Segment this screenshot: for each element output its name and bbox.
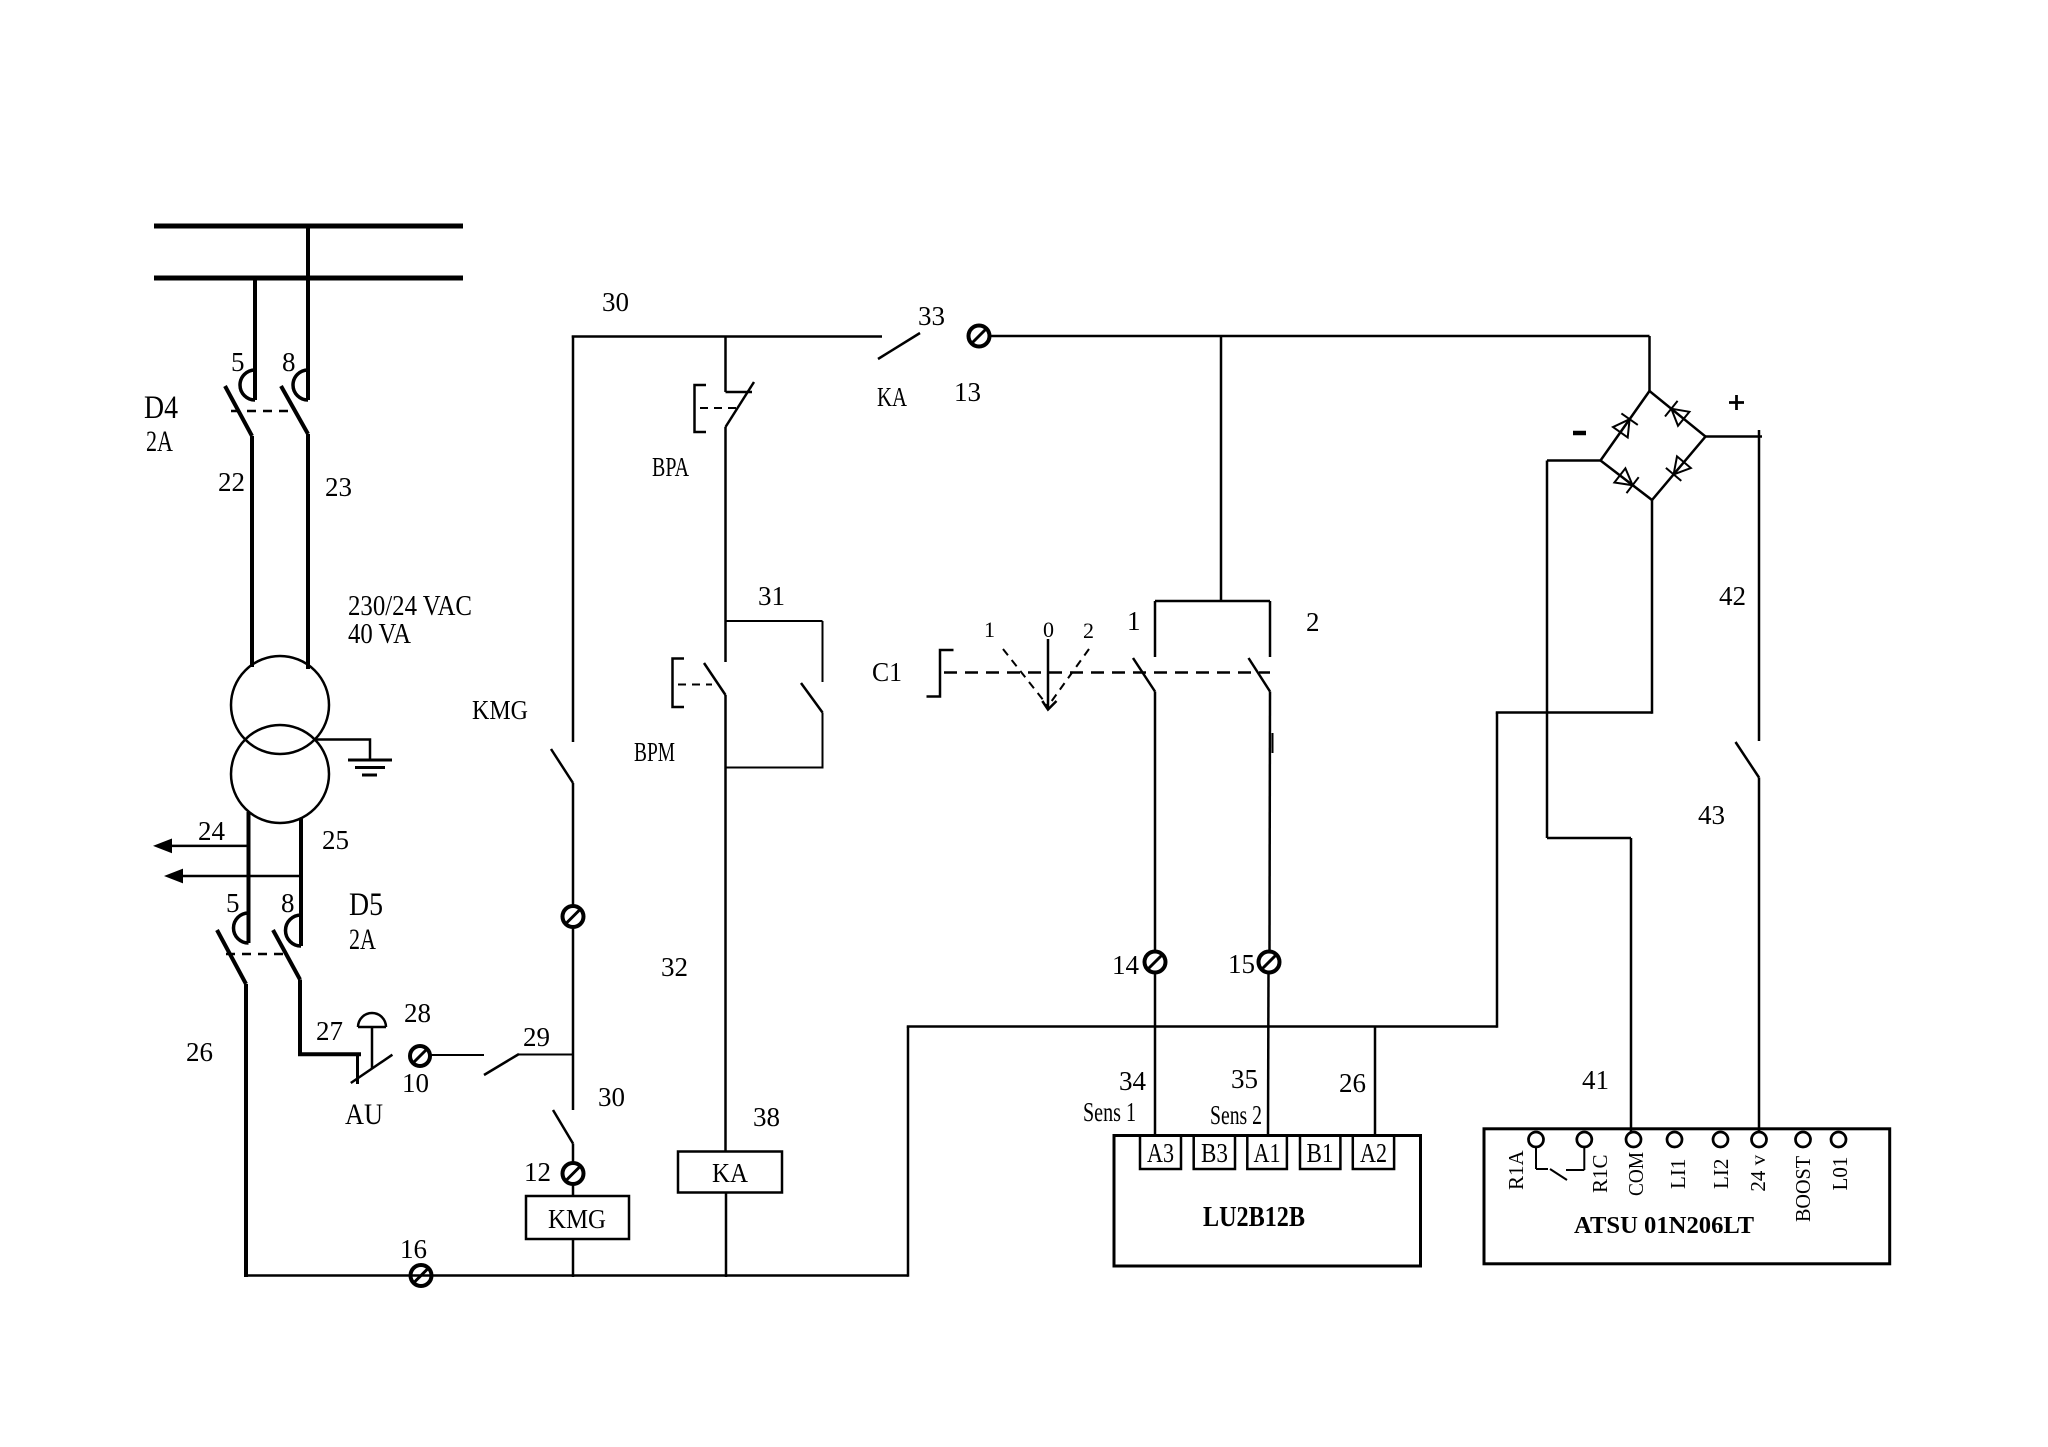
wire 28 to 29 — [430, 1054, 484, 1056]
starter ATSU box — [1484, 1129, 1890, 1264]
wire 35 upper — [1268, 692, 1271, 952]
wire BPA to BPM — [724, 427, 727, 662]
svg-text:Sens 2: Sens 2 — [1210, 1100, 1262, 1130]
wire 13 horizontal — [990, 335, 1650, 338]
terminal circle 16 — [411, 1265, 432, 1286]
svg-text:Sens 1: Sens 1 — [1083, 1097, 1136, 1127]
terminal circle 33 — [969, 326, 990, 347]
wire to circle 12 — [572, 1144, 575, 1164]
terminal A2 — [1353, 1136, 1394, 1170]
relay contact R1A-R1C — [1535, 1147, 1537, 1169]
selector V arm right (dashed) — [1049, 649, 1090, 706]
switch 29 blade (KMG aux) — [484, 1054, 519, 1075]
svg-text:0: 0 — [1043, 617, 1054, 642]
module LU2B12B box — [1114, 1136, 1421, 1267]
bottom rail — [244, 1274, 908, 1277]
wire 22 — [250, 436, 254, 667]
terminal circle 15 — [1259, 952, 1280, 973]
svg-text:41: 41 — [1582, 1065, 1609, 1095]
BPA link dashed — [700, 407, 740, 409]
breaker D5 blade pole 8 — [273, 930, 300, 980]
svg-text:16: 16 — [400, 1234, 427, 1264]
wire 23 — [306, 434, 310, 669]
wire 42 vertical — [1758, 430, 1761, 741]
branch 31 top — [726, 620, 823, 622]
svg-text:LU2B12B: LU2B12B — [1203, 1201, 1305, 1233]
svg-text:B1: B1 — [1307, 1138, 1334, 1168]
corner down to bridge — [1648, 336, 1651, 392]
C1 contact 2 leg — [1269, 601, 1272, 657]
D4 terminal hook 5 — [240, 370, 255, 400]
svg-text:31: 31 — [758, 581, 785, 611]
wire 27 horizontal to AU — [298, 1052, 361, 1056]
svg-text:24 v: 24 v — [1746, 1154, 1770, 1191]
branch 31 right leg — [822, 621, 824, 682]
svg-text:C1: C1 — [872, 657, 902, 687]
rail riser right — [1496, 713, 1499, 1028]
svg-text:A3: A3 — [1147, 1138, 1174, 1168]
terminal COM — [1626, 1132, 1641, 1147]
wire 32 down to KA coil — [724, 695, 727, 1152]
terminal B1 — [1300, 1136, 1340, 1170]
svg-text:COM: COM — [1624, 1152, 1648, 1196]
breaker D4 blade pole 5 — [225, 386, 252, 436]
svg-text:22: 22 — [218, 467, 245, 497]
contact KA NO blade (33) — [878, 333, 920, 359]
C1 contact 1 leg — [1154, 601, 1157, 657]
svg-text:B3: B3 — [1201, 1138, 1228, 1168]
svg-text:230/24 VAC: 230/24 VAC — [348, 591, 472, 622]
svg-text:33: 33 — [918, 301, 945, 331]
svg-text:23: 23 — [325, 472, 352, 502]
svg-text:AU: AU — [345, 1098, 383, 1131]
svg-text:LI1: LI1 — [1666, 1159, 1690, 1189]
rail horizontal to bridge — [1496, 711, 1652, 714]
terminal L01 — [1831, 1132, 1846, 1147]
svg-text:30: 30 — [602, 287, 629, 317]
svg-text:26: 26 — [186, 1037, 213, 1067]
terminal A3 — [1140, 1136, 1181, 1170]
svg-text:40 VA: 40 VA — [348, 619, 412, 650]
wire to node 29/30 — [572, 927, 575, 1110]
AU fixed terminal tick — [356, 1054, 359, 1084]
diode D-TR — [1671, 409, 1689, 426]
terminal circle 12 — [563, 1163, 584, 1184]
terminal circle 28 — [410, 1046, 430, 1066]
svg-text:34: 34 — [1119, 1066, 1147, 1096]
wire 26 to A2 — [1374, 1027, 1377, 1137]
AU NC blade — [351, 1055, 393, 1083]
ground symbol — [348, 759, 392, 762]
svg-text:R1A: R1A — [1504, 1149, 1528, 1190]
svg-text:10: 10 — [402, 1068, 429, 1098]
rail riser — [907, 1027, 910, 1277]
BPM link dashed — [678, 684, 712, 686]
svg-text:8: 8 — [281, 888, 295, 918]
svg-text:2: 2 — [1083, 618, 1094, 643]
terminal B3 — [1194, 1136, 1235, 1170]
wire plus out — [1706, 435, 1763, 438]
label plus — [1729, 401, 1744, 404]
switch 30 blade (AU chain) — [553, 1110, 573, 1144]
wire 25 (secondary right) — [299, 818, 303, 946]
wire 24 (secondary left) — [247, 812, 251, 943]
terminal circle (KMG branch) — [563, 906, 584, 927]
contact KA aux 31 blade — [801, 683, 823, 713]
terminal LI1 — [1667, 1132, 1682, 1147]
transformer T1 primary winding — [231, 656, 329, 754]
label minus — [1573, 431, 1586, 436]
wire 29 to node — [519, 1054, 573, 1056]
push button BPM NO blade — [704, 663, 726, 695]
terminal circle 14 — [1145, 952, 1166, 973]
svg-text:25: 25 — [322, 825, 349, 855]
svg-text:L01: L01 — [1828, 1157, 1852, 1191]
svg-text:42: 42 — [1719, 581, 1746, 611]
wire from line 30 to BPA — [724, 336, 727, 393]
rail riser to bridge AC — [1651, 500, 1654, 714]
coil KA box — [678, 1152, 782, 1193]
terminal R1A — [1529, 1132, 1544, 1147]
svg-text:1: 1 — [1127, 606, 1141, 636]
AU actuator stem — [371, 1027, 374, 1069]
transformer T1 secondary winding — [231, 725, 329, 823]
wire below KMG contact — [572, 783, 575, 906]
selector C1 bracket — [927, 650, 954, 697]
svg-text:D4: D4 — [144, 390, 178, 426]
svg-text:A1: A1 — [1254, 1138, 1281, 1168]
svg-text:D5: D5 — [349, 887, 383, 923]
svg-text:8: 8 — [282, 347, 296, 377]
C1 contact 1 blade — [1133, 658, 1155, 692]
svg-text:KA: KA — [877, 382, 907, 412]
wire 27 vertical — [298, 980, 302, 1057]
diode D-BL — [1614, 468, 1632, 485]
selector C1 link dashed — [944, 671, 1270, 674]
svg-text:30: 30 — [598, 1082, 625, 1112]
wire 34 upper — [1154, 692, 1157, 952]
svg-text:LI2: LI2 — [1709, 1159, 1733, 1189]
svg-text:5: 5 — [226, 888, 240, 918]
wire into KMG coil — [572, 1184, 575, 1196]
stray tick — [1272, 733, 1274, 753]
wire KMG coil to rail — [572, 1239, 575, 1277]
wire 34 lower to A3 — [1154, 973, 1157, 1137]
contact 43 blade — [1736, 742, 1760, 778]
D4 terminal hook 8 — [293, 370, 308, 400]
svg-text:32: 32 — [661, 952, 688, 982]
wire 30 top horizontal — [572, 335, 882, 338]
svg-text:35: 35 — [1231, 1064, 1258, 1094]
diode D-TL — [1613, 419, 1630, 437]
C1 contacts top bar — [1155, 600, 1270, 603]
svg-text:ATSU 01N206LT: ATSU 01N206LT — [1574, 1213, 1754, 1239]
BPA actuator bracket — [695, 385, 707, 432]
wire from L1 to D4 pole 8 — [306, 224, 310, 400]
wire 41 into COM — [1630, 838, 1633, 1133]
bridge rectifier diamond — [1601, 391, 1706, 500]
svg-text:28: 28 — [404, 998, 431, 1028]
C1 contact 2 blade — [1249, 658, 1271, 692]
svg-text:KA: KA — [712, 1158, 748, 1188]
svg-text:2A: 2A — [349, 923, 376, 956]
selector pointer — [1047, 639, 1050, 710]
svg-text:15: 15 — [1228, 949, 1255, 979]
diode D-BR — [1674, 456, 1691, 474]
terminal A1 — [1247, 1136, 1287, 1170]
svg-text:BPA: BPA — [652, 452, 689, 482]
branch 31 bottom — [726, 767, 823, 769]
svg-text:38: 38 — [753, 1102, 780, 1132]
breaker D5 blade pole 5 — [217, 930, 246, 984]
wire 30 vertical (left branch) — [572, 336, 575, 743]
wire KA coil to rail — [725, 1193, 728, 1278]
ground lead wire — [315, 740, 370, 760]
wire 43 into 24v — [1758, 778, 1761, 1133]
rail horizontal middle — [907, 1025, 1497, 1028]
AU mushroom head — [358, 1013, 386, 1027]
terminal LI2 — [1713, 1132, 1728, 1147]
selector V arm left (dashed) — [1003, 649, 1048, 706]
wire from L2 to D4 pole 5 — [253, 276, 257, 400]
svg-text:26: 26 — [1339, 1068, 1366, 1098]
breaker D4 blade pole 8 — [281, 386, 308, 434]
svg-text:BOOST: BOOST — [1791, 1156, 1815, 1222]
bus bar L2 — [154, 276, 463, 281]
svg-text:24: 24 — [198, 816, 226, 846]
terminal R1C — [1577, 1132, 1592, 1147]
svg-text:1: 1 — [984, 617, 995, 642]
contact KMG NO blade — [551, 749, 573, 783]
svg-text:12: 12 — [524, 1157, 551, 1187]
terminal BOOST — [1796, 1132, 1811, 1147]
svg-text:BPM: BPM — [634, 737, 675, 767]
D5 terminal hook 8 — [285, 915, 301, 946]
D5 terminal hook 5 — [234, 913, 249, 943]
terminal 24 v — [1752, 1132, 1767, 1147]
svg-text:27: 27 — [316, 1016, 343, 1046]
BPA corner — [726, 391, 753, 394]
svg-text:2A: 2A — [146, 425, 173, 458]
svg-text:13: 13 — [954, 377, 981, 407]
coil KMG box — [526, 1196, 629, 1239]
push button BPA NC blade — [726, 382, 755, 427]
arrow tap 25 — [179, 875, 301, 878]
branch 31 lower leg — [822, 713, 824, 769]
D5 mechanical link (dashed) — [226, 953, 283, 956]
wire 35 lower to A1 — [1267, 973, 1270, 1137]
svg-text:R1C: R1C — [1588, 1154, 1612, 1193]
wire 26 vertical — [244, 984, 248, 1277]
svg-text:KMG: KMG — [472, 695, 528, 725]
bus bar L1 — [154, 224, 463, 229]
svg-text:14: 14 — [1112, 950, 1140, 980]
svg-text:5: 5 — [231, 347, 245, 377]
svg-text:43: 43 — [1698, 800, 1725, 830]
branch from line 13 to C1 contacts — [1220, 336, 1223, 601]
svg-text:29: 29 — [523, 1022, 550, 1052]
D4 mechanical link (dashed) — [231, 410, 292, 413]
svg-text:2: 2 — [1306, 607, 1320, 637]
svg-text:A2: A2 — [1360, 1138, 1387, 1168]
arrow tap 24 — [168, 845, 249, 848]
svg-text:KMG: KMG — [548, 1204, 606, 1234]
wire minus out — [1547, 459, 1601, 462]
BPM actuator bracket — [673, 659, 685, 708]
